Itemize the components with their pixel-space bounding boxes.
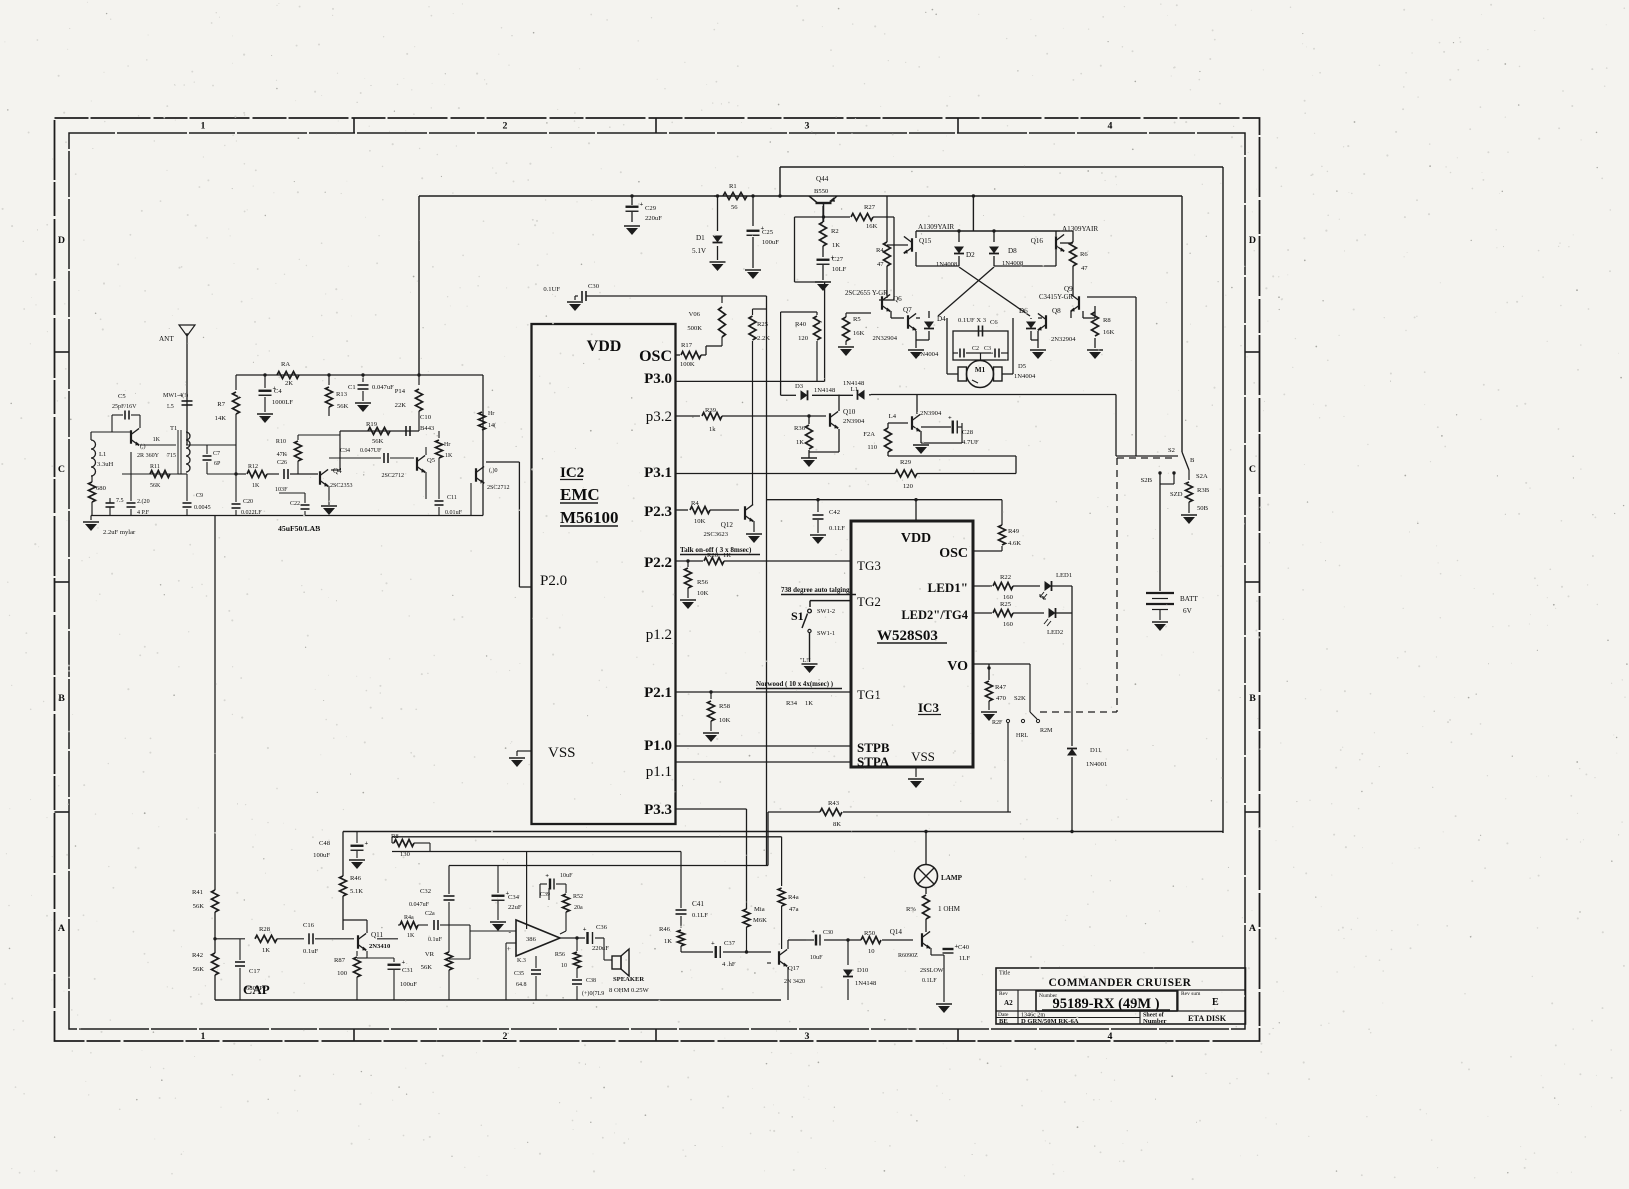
svg-text:C39: C39 [540, 892, 550, 898]
wire LED cathode bus [1071, 586, 1073, 613]
svg-text:2.2uF mylar: 2.2uF mylar [103, 529, 136, 536]
capacitor C6 [978, 326, 980, 337]
svg-text:B550: B550 [814, 188, 829, 195]
wire bridge feed [972, 196, 974, 231]
ground C42 [810, 534, 826, 536]
capacitor C44 [815, 935, 817, 946]
resistor R41 [214, 870, 216, 880]
wire p3.2 net [676, 415, 701, 417]
svg-text:A: A [1249, 923, 1257, 934]
wire P3.1 riser [1015, 456, 1017, 474]
wire P2.3 net [676, 509, 689, 511]
svg-text:160: 160 [1003, 594, 1014, 601]
svg-text:C4: C4 [274, 388, 282, 395]
wire long left vertical [214, 516, 216, 891]
transistor Q47 [778, 951, 780, 965]
svg-text:SPEAKER: SPEAKER [613, 976, 644, 983]
svg-text:(+)0(7L9: (+)0(7L9 [582, 990, 604, 997]
svg-text:R%: R% [906, 906, 916, 913]
ground IC2 VSS [517, 750, 532, 752]
svg-text:Rev: Rev [999, 991, 1008, 997]
svg-text:R22: R22 [1000, 574, 1011, 581]
capacitor C39 [548, 888, 550, 900]
wire Q14 emitter chain [930, 948, 932, 955]
svg-text:R6: R6 [1080, 251, 1088, 258]
wire R50 left [824, 939, 861, 941]
svg-text:SZD: SZD [1170, 491, 1183, 498]
svg-text:ANT: ANT [159, 335, 174, 343]
svg-text:100: 100 [337, 970, 348, 977]
svg-text:0.1LF: 0.1LF [922, 978, 937, 984]
svg-text:C35: C35 [514, 971, 524, 977]
svg-text:100uF: 100uF [762, 239, 779, 246]
capacitor C3 [994, 349, 996, 358]
resistor R25 led [993, 610, 1013, 617]
wire C27 node link [794, 217, 796, 282]
svg-text:W528S03: W528S03 [877, 628, 938, 644]
svg-text:5.1K: 5.1K [350, 888, 363, 895]
svg-text:50B: 50B [1197, 505, 1209, 512]
svg-text:Hr: Hr [444, 442, 450, 448]
diode D8 [993, 231, 995, 242]
svg-text:4 .hF: 4 .hF [722, 961, 736, 968]
svg-text:1N4008: 1N4008 [936, 261, 958, 268]
svg-text:VDD: VDD [587, 338, 622, 355]
svg-text:2SC2712: 2SC2712 [487, 485, 510, 491]
svg-text:STPA: STPA [857, 754, 890, 769]
capacitor C34 rf [329, 457, 381, 459]
svg-text:-: - [508, 927, 511, 936]
resistor R52 feedback [565, 884, 567, 893]
svg-text:2N3904: 2N3904 [843, 418, 865, 425]
resistor R8 [1094, 306, 1096, 310]
svg-text:2SC2712: 2SC2712 [381, 473, 404, 479]
svg-text:TG1: TG1 [857, 687, 881, 702]
ground C48 [349, 859, 365, 861]
svg-text:1: 1 [201, 121, 206, 132]
resistor R44 56K [743, 909, 750, 927]
svg-text:0.1UF: 0.1UF [543, 286, 560, 293]
wire P3.0 drop to diode row [780, 381, 782, 395]
wire Q11 emitter [366, 951, 368, 958]
svg-text:VO: VO [947, 659, 968, 674]
svg-text:C40: C40 [958, 944, 970, 951]
svg-text:2N3904: 2N3904 [920, 410, 942, 417]
svg-text:LAMP: LAMP [941, 874, 963, 882]
wire cross diagonal 2 [938, 267, 994, 316]
svg-text:C30: C30 [823, 930, 833, 936]
resistor R25 [753, 308, 767, 310]
svg-text:B: B [58, 693, 65, 704]
wire Q13 emitter [920, 431, 922, 443]
svg-text:10: 10 [561, 963, 567, 969]
svg-text:0.1LF: 0.1LF [829, 525, 845, 532]
svg-text:1K: 1K [407, 933, 415, 939]
svg-text:TG3: TG3 [857, 558, 881, 573]
resistor P14 22K [418, 375, 420, 385]
svg-text:1N4001: 1N4001 [1086, 761, 1107, 768]
svg-text:D1: D1 [696, 234, 705, 242]
resistor R87 [356, 951, 358, 956]
op-amp U1 [516, 920, 560, 956]
wire Q1 to T1 [140, 444, 176, 446]
svg-text:10: 10 [868, 948, 875, 955]
svg-text:P2.0: P2.0 [540, 573, 567, 589]
svg-text:C22: C22 [290, 501, 300, 507]
resistor R44 base [690, 507, 710, 514]
svg-text:D: D [58, 235, 65, 246]
svg-text:1000LF: 1000LF [272, 399, 293, 406]
wire mixer row [236, 473, 246, 475]
resistor R39 [702, 413, 722, 420]
svg-text:16K: 16K [866, 223, 878, 230]
LED LED1 [1045, 581, 1052, 591]
svg-text:100uF: 100uF [400, 981, 417, 988]
svg-text:L4: L4 [889, 413, 897, 420]
svg-text:B: B [1249, 693, 1256, 704]
svg-text:D4: D4 [937, 315, 946, 323]
wire P2.2 net [676, 560, 704, 562]
svg-text:16K: 16K [1103, 329, 1115, 336]
motor M1 [967, 361, 994, 388]
svg-text:C27: C27 [832, 256, 844, 263]
capacitor C1 [362, 375, 364, 382]
svg-text:56K: 56K [421, 964, 433, 971]
svg-text:A2: A2 [1004, 999, 1013, 1007]
svg-text:P2.3: P2.3 [644, 504, 672, 520]
wire R27 to Q6 base [893, 217, 895, 300]
wire cap mid bus [953, 352, 958, 354]
svg-text:R39: R39 [705, 407, 717, 414]
ground C30 [574, 296, 576, 300]
trimmer cap L5 [182, 400, 193, 402]
svg-text:+: + [640, 201, 644, 208]
svg-text:C3: C3 [984, 346, 991, 352]
svg-text:Q15: Q15 [919, 237, 932, 245]
transistor Q8 [1045, 315, 1047, 329]
svg-text:S2A: S2A [1196, 473, 1208, 480]
svg-text:F2A: F2A [863, 431, 875, 438]
svg-text:P3.0: P3.0 [644, 371, 672, 387]
svg-text:2SC3623: 2SC3623 [703, 531, 728, 538]
capacitor C31 [393, 958, 395, 962]
svg-text:P2.2: P2.2 [644, 555, 672, 571]
ground R58 [703, 732, 719, 734]
svg-text:3.3uH: 3.3uH [97, 461, 114, 468]
svg-text:C20: C20 [243, 499, 253, 505]
svg-text:1K: 1K [796, 439, 804, 446]
capacitor C26 [283, 469, 285, 479]
svg-text:R1: R1 [729, 183, 737, 190]
svg-text:386: 386 [526, 936, 537, 943]
wire R18 line [340, 430, 419, 432]
IC IC3 W528S03 body [851, 521, 973, 767]
wire T1 bottom [178, 473, 187, 475]
resistor R49 [1001, 546, 1003, 551]
svg-text:C5: C5 [118, 393, 126, 400]
svg-text:715: 715 [167, 453, 176, 459]
svg-text:+: + [365, 840, 369, 847]
wire opamp supply [526, 852, 528, 930]
svg-text:COMMANDER CRUISER: COMMANDER CRUISER [1049, 977, 1192, 989]
svg-text:BATT: BATT [1180, 595, 1198, 603]
ground for C27 [815, 281, 831, 283]
svg-text:14K: 14K [215, 415, 227, 422]
svg-text:R4: R4 [876, 247, 884, 254]
svg-text:100K: 100K [680, 361, 695, 368]
svg-text:P3.3: P3.3 [644, 802, 672, 818]
wire rail right drop to switch [1181, 196, 1183, 452]
wire Q10 emitter down [838, 429, 840, 452]
svg-text:Q11: Q11 [371, 931, 383, 939]
svg-text:C29: C29 [645, 205, 657, 212]
svg-text:Norwood ( 10 x 4x(msec) ): Norwood ( 10 x 4x(msec) ) [756, 681, 833, 688]
transistor Q1 [130, 430, 132, 444]
wire Q47 nets [787, 940, 789, 949]
transistor Q5 [416, 457, 418, 471]
ground R36 [801, 457, 817, 459]
caps on RF bus C20 C22 [232, 503, 241, 505]
svg-text:L1: L1 [851, 386, 858, 393]
svg-text:C28: C28 [962, 429, 974, 436]
svg-text:56K: 56K [372, 438, 384, 445]
svg-text:Title: Title [999, 971, 1011, 977]
svg-text:R10: R10 [276, 439, 286, 445]
wire OSC IC3 net [973, 550, 1002, 552]
svg-text:R12: R12 [248, 464, 258, 470]
svg-text:LED1: LED1 [1056, 572, 1072, 579]
svg-text:2SSLOW: 2SSLOW [920, 968, 944, 974]
svg-text:A1309YAIR: A1309YAIR [1062, 225, 1098, 233]
svg-text:S2: S2 [1168, 447, 1175, 454]
diode D2 [958, 231, 960, 242]
svg-text:OSC: OSC [939, 546, 968, 561]
resistor R51 [925, 887, 927, 894]
svg-text:2.(20: 2.(20 [137, 498, 150, 505]
svg-text:6P: 6P [214, 461, 221, 467]
capacitor C2 [959, 349, 961, 358]
svg-text:0.022LF: 0.022LF [241, 510, 262, 516]
svg-text:C34: C34 [340, 448, 350, 454]
svg-text:"L!": "L!" [800, 658, 811, 664]
svg-text:C42: C42 [829, 509, 840, 516]
ground C4 [257, 413, 273, 415]
svg-text:D8: D8 [1008, 247, 1017, 255]
wire Q4 emitter [328, 486, 330, 505]
diode D6 [1026, 322, 1036, 329]
svg-text:470: 470 [996, 695, 1007, 702]
capacitor C5 [124, 411, 126, 420]
wire cross diagonal 1 [959, 267, 1030, 316]
svg-text:R19: R19 [366, 421, 378, 428]
wire P3.0 net [676, 380, 825, 382]
svg-text:ETA DISK: ETA DISK [1188, 1014, 1227, 1023]
svg-text:C2: C2 [972, 346, 979, 352]
wire speaker bottom [627, 978, 629, 983]
svg-text:R25: R25 [1000, 601, 1012, 608]
wire Q30 nets [470, 483, 472, 516]
ground R56 [680, 599, 696, 601]
svg-text:B443: B443 [420, 425, 435, 432]
svg-text:130: 130 [400, 851, 411, 858]
svg-text:Q5: Q5 [427, 457, 436, 464]
svg-text:1K: 1K [832, 242, 840, 249]
svg-text:Q17: Q17 [788, 965, 800, 972]
resistor R7 [235, 375, 237, 390]
capacitor C8b [127, 502, 136, 504]
wire RF right edge [482, 375, 484, 516]
svg-text:1: 1 [201, 1031, 206, 1042]
svg-text:A1309YAIR: A1309YAIR [918, 223, 954, 231]
wire audio mid rail [392, 851, 681, 853]
wire bottom bus [215, 999, 781, 1001]
wire bridge left cell [915, 252, 917, 266]
resistor R45 [781, 837, 783, 886]
svg-text:C3415Y-GR: C3415Y-GR [1039, 294, 1074, 301]
svg-text:+: + [402, 959, 406, 966]
transistor Q10 [829, 413, 831, 427]
capacitor C29 [631, 196, 633, 205]
ground C1 [355, 402, 371, 404]
svg-text:D: D [1249, 235, 1256, 246]
wire audio top rail [343, 831, 1223, 833]
svg-text:120: 120 [798, 335, 809, 342]
svg-text:160: 160 [1003, 621, 1014, 628]
svg-text:VSS: VSS [911, 749, 935, 764]
ground Q8 [1030, 349, 1046, 351]
wire R6 top [1060, 230, 1073, 232]
svg-text:+: + [583, 926, 587, 933]
wire Q10 collector [838, 395, 840, 412]
svg-text:220uF: 220uF [645, 215, 662, 222]
dashed boundary battery [1116, 458, 1118, 712]
svg-text:0.1uF: 0.1uF [428, 937, 443, 943]
ground R5 [838, 346, 854, 348]
diode D5 pair [858, 390, 865, 400]
capacitor C34 audio [497, 866, 499, 893]
svg-text:1 OHM: 1 OHM [938, 905, 961, 913]
wire Q5 nets [425, 447, 427, 455]
capacitor C42 [817, 500, 819, 512]
svg-text:+: + [711, 940, 715, 947]
svg-text:10LF: 10LF [832, 266, 847, 273]
svg-text:R50: R50 [864, 930, 876, 937]
resistor R27 [795, 216, 851, 218]
svg-text:C: C [58, 464, 65, 475]
capacitor C33 [433, 920, 435, 930]
svg-text:M56100: M56100 [560, 508, 619, 527]
svg-text:VDD: VDD [901, 531, 931, 546]
svg-text:R46: R46 [659, 926, 671, 933]
svg-text:Q9: Q9 [1064, 285, 1073, 293]
wire Q11 collector [366, 920, 368, 933]
svg-text:T1: T1 [170, 425, 177, 432]
svg-text:2N3410: 2N3410 [369, 943, 391, 950]
wire audio rail drop [342, 832, 344, 877]
capacitor C41 [680, 852, 682, 909]
svg-text:+: + [507, 944, 511, 953]
wire VO net [973, 663, 989, 665]
ground C34 [490, 921, 506, 923]
svg-text:C1: C1 [348, 384, 356, 391]
wire Q8 emitter bus [1037, 331, 1039, 348]
capacitor C25 [752, 196, 754, 226]
svg-text:R49: R49 [1008, 528, 1020, 535]
wire R18 drop [339, 431, 341, 470]
resistor R37 bleed [1188, 470, 1190, 480]
capacitor C10 [405, 426, 407, 436]
svg-text:C16: C16 [303, 922, 315, 929]
svg-text:R5: R5 [853, 316, 861, 323]
svg-text:S2K: S2K [1014, 695, 1026, 702]
svg-text:HRL: HRL [1016, 733, 1028, 739]
resistor R28 [255, 935, 277, 942]
svg-text:1K: 1K [262, 947, 270, 954]
wire bridge bottom bus [871, 394, 1116, 396]
svg-text:2N32904: 2N32904 [872, 335, 897, 342]
svg-text:3: 3 [805, 121, 810, 132]
svg-text:E: E [1212, 997, 1219, 1008]
svg-text:D GRN/50M RK-6A: D GRN/50M RK-6A [1021, 1018, 1079, 1025]
svg-text:STPB: STPB [857, 740, 890, 755]
resistor R40 47K [297, 435, 299, 440]
svg-text:103F: 103F [275, 487, 288, 493]
svg-text:C41: C41 [692, 900, 704, 908]
wire Q9 emitter node [1082, 311, 1084, 318]
svg-text:0.1uF: 0.1uF [303, 948, 319, 955]
svg-text:C17: C17 [249, 968, 261, 975]
svg-text:738 degree auto talging: 738 degree auto talging [781, 587, 850, 594]
svg-text:C2a: C2a [425, 911, 435, 917]
svg-text:Q8: Q8 [1052, 307, 1061, 315]
wire R40 top [298, 434, 340, 436]
resistor R5 mid [846, 312, 871, 314]
svg-text:Q10: Q10 [843, 408, 856, 416]
svg-text:4 P.F: 4 P.F [137, 510, 150, 516]
svg-text:R6090Z: R6090Z [898, 953, 918, 959]
svg-text:3: 3 [805, 1031, 810, 1042]
resistor R15 right [482, 411, 484, 413]
svg-text:R7: R7 [217, 401, 225, 408]
resistor R24 [888, 422, 908, 424]
svg-text:0.047uF: 0.047uF [409, 902, 430, 908]
capacitor C27 [822, 246, 824, 257]
svg-text:R4a: R4a [404, 915, 414, 921]
transistor Q9 [1078, 296, 1080, 310]
wire rail left drop [418, 196, 420, 375]
svg-text:Rev sum: Rev sum [1181, 991, 1201, 997]
svg-text:C7: C7 [213, 451, 220, 457]
svg-text:C36: C36 [596, 924, 608, 931]
svg-text:R4a: R4a [788, 894, 799, 901]
svg-text:2R 360Y: 2R 360Y [137, 453, 160, 459]
ground Q7 [908, 349, 924, 351]
resistor R29 [895, 470, 917, 477]
resistor R31 680 [89, 482, 96, 502]
svg-text:D10: D10 [857, 967, 869, 974]
transistor Q44 [809, 196, 818, 203]
svg-text:C38: C38 [586, 978, 596, 984]
resistor R18 [368, 428, 390, 435]
svg-text:Hr: Hr [488, 411, 494, 417]
resistor R20 [704, 558, 724, 565]
svg-text:R34: R34 [786, 700, 798, 707]
svg-text:R20: R20 [707, 552, 719, 559]
svg-text:C34: C34 [508, 894, 520, 901]
svg-text:P2.1: P2.1 [644, 685, 672, 701]
capacitor C7 [203, 455, 212, 457]
svg-text:CAP: CAP [243, 982, 270, 997]
